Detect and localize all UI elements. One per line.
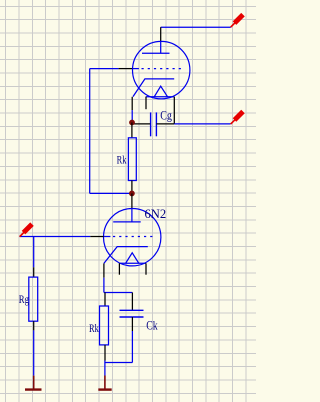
wire: cathode node to Cg left plate xyxy=(132,123,150,125)
tube V1 cathode xyxy=(133,79,174,97)
junction node B xyxy=(129,191,135,197)
wire: Ck bottom to cathode ground rail xyxy=(105,331,132,376)
resistor Rg xyxy=(29,277,38,321)
pin: V1 heater pin left xyxy=(145,97,147,110)
pin: resistor Rk2 bottom pin xyxy=(104,345,106,361)
tube V2 grid (dashed) xyxy=(104,236,153,238)
pin: V1 cathode pin xyxy=(131,97,133,110)
svg-text:Cg: Cg xyxy=(160,109,172,123)
tube V2 heater xyxy=(119,253,146,263)
terminal P2 (right middle) xyxy=(231,112,243,125)
ground GND2 xyxy=(98,376,111,390)
pin: capacitor Ck top pin xyxy=(131,293,133,311)
capacitor Ck plates xyxy=(120,310,144,317)
wire: top anode wire to terminal xyxy=(161,26,231,28)
wire: to terminal P2 xyxy=(174,123,230,125)
svg-text:Rk: Rk xyxy=(89,321,99,335)
tube V1 (upper triode) envelope xyxy=(133,41,190,98)
pin: resistor Rk1 bottom pin xyxy=(131,181,133,194)
background grid xyxy=(0,0,256,402)
svg-text:Ck: Ck xyxy=(146,319,158,333)
wire: grid wire from left rail to V1 xyxy=(90,69,132,194)
svg-text:Rk: Rk xyxy=(117,153,127,167)
resistor Rk (upper) xyxy=(128,138,136,181)
tube V2 cathode xyxy=(104,247,148,264)
pin: resistor Rk2 top pin xyxy=(104,293,106,307)
pin: resistor Rk1 top pin xyxy=(131,123,133,138)
pin: resistor Rg top pin xyxy=(33,267,35,277)
pin: V1 heater pin right xyxy=(173,97,175,124)
tube V2 plate xyxy=(113,209,141,222)
resistor Rk (lower) xyxy=(100,306,109,345)
wire: Rg to ground xyxy=(33,330,35,375)
svg-text:Rg: Rg xyxy=(19,292,29,306)
pin: V2 cathode pin xyxy=(103,263,105,277)
pin: V2 grid pin stub xyxy=(90,236,104,238)
wire: input wire from terminal P3 to V2 grid xyxy=(20,236,91,238)
wire: V2 cathode node xyxy=(104,278,132,293)
wire: Rg branch down xyxy=(33,237,35,268)
junction node A xyxy=(129,120,135,126)
tube V1 heater xyxy=(146,86,175,97)
pin: resistor Rg bottom pin xyxy=(33,321,35,330)
svg-text:6N2: 6N2 xyxy=(145,207,167,221)
wire: Cg right plate to heater pin xyxy=(156,123,174,125)
terminal P3 (left) xyxy=(20,224,32,237)
ground GND1 xyxy=(25,376,42,390)
pin: upper tube anode pin xyxy=(160,27,162,41)
capacitor Cg plates xyxy=(151,112,157,136)
pin: capacitor Ck bottom pin xyxy=(131,317,133,331)
terminal P1 (top right) xyxy=(231,15,243,28)
pin: V2 heater pin right xyxy=(145,263,147,274)
tube V1 grid (dashed) xyxy=(132,68,182,70)
tube V1 plate xyxy=(142,41,170,53)
pin: V2 heater pin left xyxy=(118,263,120,274)
pin: lower tube anode pin xyxy=(131,193,133,208)
tube V2 (lower triode 6N2) envelope xyxy=(104,209,161,266)
pin: V1 grid pin stub xyxy=(119,68,133,70)
